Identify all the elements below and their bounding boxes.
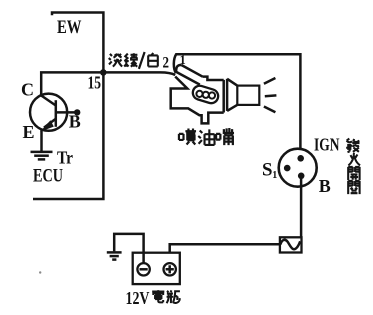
svg-text:B: B [319,176,331,196]
svg-text:12V: 12V [126,288,150,308]
svg-text:1: 1 [180,53,186,67]
svg-text:Tr: Tr [57,147,73,167]
svg-text:15: 15 [88,72,102,92]
svg-text:E: E [23,122,35,142]
svg-text:EW: EW [57,18,82,38]
svg-text:B: B [69,112,81,132]
svg-text:ECU: ECU [33,167,63,187]
svg-text:IGN: IGN [314,134,340,154]
svg-text:2: 2 [163,55,170,72]
svg-text:C: C [21,79,34,99]
svg-text:S: S [262,160,273,181]
svg-text:1: 1 [272,170,277,181]
